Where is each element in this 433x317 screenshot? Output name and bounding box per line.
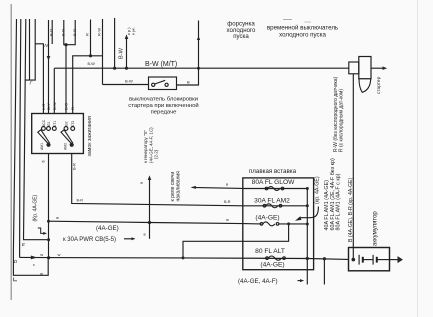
svg-text:B-O: B-O <box>61 29 66 36</box>
scan dash mark <box>283 19 292 21</box>
arrow kr 4A-GE <box>300 207 319 218</box>
svg-text:(кр. 4A-GE): (кр. 4A-GE) <box>315 176 321 204</box>
svg-text:w: w <box>40 271 43 276</box>
node 4A-GE fuse <box>287 222 290 225</box>
node injector <box>197 67 200 70</box>
wire to glow relay <box>192 187 243 188</box>
svg-text:плавкая вставка: плавкая вставка <box>249 168 297 175</box>
wire bundle line 3 <box>24 19 49 240</box>
svg-text:в: в <box>226 182 228 187</box>
switch blade <box>155 80 165 84</box>
arrow Г elbow lead <box>38 228 44 233</box>
node U loop <box>64 43 67 46</box>
svg-text:80A FL AM1 (4A-F с кр): 80A FL AM1 (4A-F с кр) <box>336 173 342 230</box>
svg-text:B: B <box>187 80 190 85</box>
svg-text:ACC: ACC <box>42 119 46 127</box>
node stub join <box>89 54 92 57</box>
wire B-W riser <box>53 68 55 113</box>
svg-text:(4A-GE, 4A-F): (4A-GE, 4A-F) <box>238 278 278 285</box>
starter motor hook <box>359 79 371 93</box>
battery box <box>349 248 390 271</box>
svg-text:30A FL AM2: 30A FL AM2 <box>254 198 290 205</box>
svg-text:w: w <box>58 252 61 257</box>
svg-text:(4A-GE): (4A-GE) <box>96 225 119 232</box>
wire (4A-GE) horizontal <box>49 221 262 224</box>
svg-text:B-W: B-W <box>125 79 133 84</box>
arrow up B-W <box>126 38 128 68</box>
svg-text:B-O: B-O <box>72 29 77 36</box>
svg-text:ST1: ST1 <box>53 121 57 127</box>
svg-text:B-R: B-R <box>77 199 84 203</box>
wire B-W (M/T) <box>54 67 348 69</box>
node ALT branch <box>182 256 185 259</box>
node S line junction <box>148 221 151 224</box>
wire R riser <box>73 56 103 114</box>
svg-text:к 30A PWR CB(5-5): к 30A PWR CB(5-5) <box>63 237 116 243</box>
node bus am2 <box>306 204 309 207</box>
terminal ST1 <box>52 127 56 131</box>
wire stub loop <box>64 20 75 45</box>
wire B-Y riser <box>48 20 50 114</box>
svg-text:B-O: B-O <box>64 103 69 110</box>
svg-text:w: w <box>40 252 43 257</box>
node bus row3 <box>306 223 309 226</box>
svg-text:накаливания: накаливания <box>176 171 182 202</box>
svg-text:(Кр. 4А-GE): (Кр. 4А-GE) <box>33 194 39 221</box>
arrow starter out <box>371 67 383 69</box>
svg-text:выключатель блокировки: выключатель блокировки <box>129 97 198 103</box>
wire L-R riser <box>35 44 43 114</box>
svg-text:IG2: IG2 <box>65 121 69 127</box>
svg-text:(2-2): (2-2) <box>154 149 159 159</box>
diode arrow on B-Y <box>47 56 51 61</box>
terminal IG2 <box>64 127 68 131</box>
svg-text:R (с кислородным дат-ком): R (с кислородным дат-ком) <box>339 89 345 152</box>
svg-text:B (4A-GE), B-R (кр. 4A-GE): B (4A-GE), B-R (кр. 4A-GE) <box>348 177 354 242</box>
wire battery branch down <box>323 259 325 285</box>
node battery <box>352 258 356 262</box>
svg-text:D: D <box>14 259 18 265</box>
svg-text:IG1: IG1 <box>47 121 51 127</box>
wire bundle line 2 <box>20 19 21 257</box>
wire bundle line 4 <box>29 19 31 80</box>
battery cells <box>358 255 360 265</box>
starter solenoid box <box>359 57 371 79</box>
node 114 <box>113 67 116 70</box>
svg-text:B-W: B-W <box>119 47 125 59</box>
arrowhead on injector wire <box>197 36 200 40</box>
svg-text:80 FL ALT: 80 FL ALT <box>255 248 285 255</box>
corner mark <box>14 278 17 281</box>
switch lever AM2 <box>61 130 73 144</box>
fusible link box <box>243 178 314 270</box>
starter relay small box <box>349 62 359 74</box>
node W x 4A-GE <box>47 220 50 223</box>
svg-text:передаче: передаче <box>151 110 178 116</box>
svg-text:AM2: AM2 <box>63 143 67 150</box>
svg-text:B-W: B-W <box>88 62 96 66</box>
wire B-R from AM2 <box>72 154 243 206</box>
svg-text:замок зажигания: замок зажигания <box>87 116 93 156</box>
wire stub B-O first <box>51 20 53 44</box>
svg-text:B-R: B-R <box>224 200 231 204</box>
svg-text:стартера при включенной: стартера при включенной <box>128 102 198 109</box>
wire to neutral switch right <box>177 68 199 85</box>
svg-text:временной выключатель: временной выключатель <box>267 25 338 32</box>
svg-text:R: R <box>70 107 75 110</box>
arrow to 30A PWR CB <box>124 238 132 240</box>
fuse (4A-GE) <box>260 223 263 226</box>
faint right page line <box>417 0 419 317</box>
terminal IG1 <box>47 127 51 131</box>
node battery branch <box>323 257 326 260</box>
wire battery out <box>390 259 398 261</box>
svg-text:холодного пуска: холодного пуска <box>279 32 326 39</box>
wire B-O riser <box>65 45 67 114</box>
switch contact right <box>165 83 168 86</box>
page border <box>10 4 12 300</box>
arrow D <box>31 256 37 260</box>
wire W from AM1 <box>48 154 50 258</box>
svg-text:стартер: стартер <box>377 76 382 94</box>
svg-text:ST2: ST2 <box>71 121 75 127</box>
fuse 80 FL ALT <box>266 257 269 260</box>
svg-text:w: w <box>42 159 45 164</box>
wire vertical riser <box>114 18 116 68</box>
wire riser 101 <box>102 19 104 85</box>
wire generator S <box>149 179 151 239</box>
neutral start switch box <box>149 77 177 90</box>
ignition switch box <box>32 114 84 154</box>
svg-text:аккумулятор: аккумулятор <box>372 211 378 246</box>
svg-text:(4A-GE): (4A-GE) <box>255 215 279 222</box>
terminal ST2 <box>71 127 75 131</box>
wire 4A-GE fuse return <box>279 223 308 225</box>
wire starter to battery <box>352 74 354 260</box>
svg-text:B-O: B-O <box>48 29 53 36</box>
svg-text:AM1: AM1 <box>40 143 44 150</box>
svg-text:(4A-GE): (4A-GE) <box>260 262 284 269</box>
svg-text:B-R: B-R <box>71 163 76 170</box>
svg-text:B-Y: B-Y <box>46 103 51 110</box>
svg-text:w: w <box>56 215 59 220</box>
switch lever AM1 <box>38 130 50 144</box>
node bus alt <box>306 257 309 260</box>
node W bottom <box>47 256 50 259</box>
fuse 30A FL AM2 <box>243 205 307 207</box>
wire to neutral switch left <box>103 84 149 86</box>
svg-text:B-W: B-W <box>52 102 57 110</box>
svg-text:w: w <box>226 217 229 222</box>
arrow 4A-GE 4A-F <box>298 280 301 282</box>
node E join <box>47 238 50 241</box>
arrow to generator S <box>148 175 152 180</box>
node arrow branch <box>125 67 128 70</box>
wire bundle line 5 <box>25 19 35 80</box>
wire 4A-GE fuse elbow <box>183 224 289 258</box>
svg-text:80A FL GLOW: 80A FL GLOW <box>252 179 295 186</box>
svg-text:Г: Г <box>30 81 33 87</box>
svg-text:B-W (М/Т): B-W (М/Т) <box>145 61 177 68</box>
svg-text:R-W: R-W <box>96 28 101 36</box>
switch contact left <box>152 83 155 86</box>
svg-text:R: R <box>84 33 89 36</box>
wire bottom main W <box>20 257 349 259</box>
fuse 80A FL GLOW <box>243 188 307 190</box>
terminal ACC <box>42 127 46 131</box>
svg-text:в: в <box>141 180 143 185</box>
wire cold start injector <box>198 21 200 69</box>
svg-text:в: в <box>144 232 146 237</box>
svg-text:к ук.: к ук. <box>130 27 135 35</box>
svg-text:s: s <box>33 263 35 267</box>
wire bundle line 1 <box>13 19 48 275</box>
wire stub riser <box>90 20 92 56</box>
svg-text:пуска: пуска <box>233 33 249 40</box>
node bus glow <box>306 187 309 190</box>
wire right bus <box>306 189 308 285</box>
